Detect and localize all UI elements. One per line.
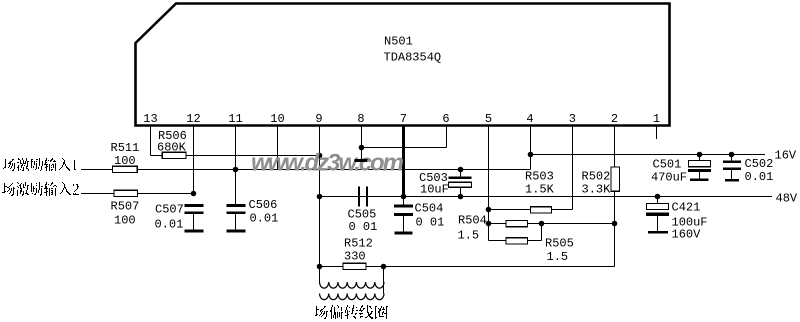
capacitor C502 (723, 155, 741, 181)
svg-text:13: 13 (143, 112, 157, 126)
node C502/16V (729, 152, 735, 158)
svg-text:470uF: 470uF (651, 171, 687, 185)
node R502 bottom (612, 221, 618, 227)
svg-text:R507: R507 (111, 200, 140, 214)
svg-text:C502: C502 (745, 157, 774, 171)
wire coil return bottom (320, 266, 615, 268)
wire node to R502 bottom (542, 223, 615, 225)
svg-text:680K: 680K (157, 141, 187, 155)
svg-text:10: 10 (270, 112, 284, 126)
svg-text:C504: C504 (415, 202, 444, 216)
node pin9/C505 (317, 194, 323, 200)
wire pin12 lead (193, 127, 195, 194)
node C503 top (458, 167, 464, 173)
svg-text:2: 2 (611, 112, 618, 126)
svg-text:11: 11 (228, 112, 242, 126)
svg-text:3: 3 (569, 112, 576, 126)
resistor R511 body (113, 166, 138, 172)
wire 16V rail (531, 154, 766, 156)
wire pin9 to C505 to pin7 (320, 196, 404, 198)
wire R503 row pin5 to pin3 (489, 209, 573, 211)
resistor R505 body (506, 238, 528, 244)
wire R502 bottom down to coil return (614, 191, 616, 266)
svg-text:1: 1 (653, 112, 660, 126)
wire pin9 lead down to coil (319, 127, 321, 267)
wire pin2 lead to R502 (614, 127, 616, 168)
node coil left (317, 264, 323, 270)
svg-text:10uF: 10uF (420, 183, 449, 197)
wire pin7 lead (402, 127, 405, 197)
svg-text:12: 12 (186, 112, 200, 126)
capacitor C506 (227, 170, 246, 232)
wire pin8 lead (361, 127, 363, 148)
svg-text:www.dz3w.com: www.dz3w.com (251, 150, 404, 177)
node coil right (381, 264, 387, 270)
svg-text:R512: R512 (344, 237, 373, 251)
wire pin6 lead (446, 127, 448, 148)
wire input2 to R507 (81, 193, 114, 195)
capacitor C504 (394, 197, 413, 234)
capacitor C503 polarized (449, 170, 472, 197)
svg-text:3.3K: 3.3K (582, 183, 612, 197)
node pin5/R503 (486, 207, 492, 213)
svg-text:0.01: 0.01 (250, 212, 279, 226)
svg-text:8: 8 (357, 112, 364, 126)
node R504/R505 right (539, 221, 545, 227)
inductor field deflection coil winding row2 (320, 294, 385, 300)
wire 48V rail (404, 196, 773, 198)
svg-text:100: 100 (114, 214, 136, 228)
svg-text:C501: C501 (653, 158, 682, 172)
node pin11/R511/C506 (233, 167, 239, 173)
svg-text:0.01: 0.01 (745, 170, 774, 184)
svg-text:C506: C506 (249, 198, 278, 212)
capacitor C501 polarized (688, 155, 711, 180)
IC N501 TDA8354Q body (136, 4, 670, 126)
svg-text:C421: C421 (672, 201, 701, 215)
wire pin1 stub (656, 127, 658, 140)
wire pin10 lead (277, 127, 279, 170)
capacitor C507 (185, 206, 204, 232)
node pin8 (359, 145, 365, 151)
svg-text:6: 6 (442, 112, 449, 126)
svg-text:330: 330 (344, 250, 366, 264)
resistor R506 body (162, 152, 186, 158)
svg-text:1.5: 1.5 (547, 250, 569, 264)
svg-text:0 01: 0 01 (349, 220, 378, 234)
node C501/16V (697, 152, 703, 158)
svg-text:0 01: 0 01 (416, 216, 445, 230)
node pin5/R504 (486, 221, 492, 227)
wire coil left terminal (319, 267, 321, 283)
wire pin4 lead (530, 127, 532, 170)
wire pin13 lead (150, 127, 152, 156)
svg-text:48V: 48V (776, 192, 798, 206)
svg-text:R502: R502 (582, 170, 611, 184)
resistor R503 body (530, 207, 551, 213)
resistor R502 body (611, 167, 620, 191)
node pin4/16V (528, 152, 534, 158)
svg-text:5: 5 (485, 112, 492, 126)
svg-text:R504: R504 (458, 214, 487, 228)
label input1 Chinese 场激励输入1 (3, 158, 76, 171)
resistor R504 body (506, 221, 528, 227)
wire R511 to pin11 and across to C503 and pin4 jog (137, 169, 530, 171)
node C421/48V (655, 194, 661, 200)
wire R504 row (489, 223, 542, 225)
wire pin3 lead (572, 127, 574, 210)
svg-text:4: 4 (526, 112, 533, 126)
svg-text:1.5: 1.5 (458, 229, 480, 243)
label input2 Chinese 场激励输入2 (2, 182, 79, 196)
svg-text:N501: N501 (384, 35, 413, 49)
node pin9/R506 (317, 153, 323, 159)
node pin12/R507/C507 (191, 191, 197, 197)
svg-text:16V: 16V (775, 149, 797, 163)
capacitor C505 (359, 187, 367, 207)
svg-text:100: 100 (114, 154, 136, 168)
capacitor C421 polarized (646, 197, 669, 233)
svg-text:C507: C507 (155, 203, 184, 217)
wire R507 to pin12 (138, 193, 194, 195)
wire pin8 ground stub (361, 148, 363, 160)
svg-text:9: 9 (315, 112, 322, 126)
wire pin8 to pin6 (362, 147, 447, 149)
wire pin5 lead down to R504/R505 bracket (488, 127, 490, 241)
svg-text:R503: R503 (525, 170, 554, 184)
resistor R507 body (114, 190, 138, 196)
inductor field deflection coil winding row1 (320, 282, 385, 288)
svg-text:1.5K: 1.5K (525, 183, 555, 197)
resistor R512 body (343, 263, 366, 269)
svg-text:7: 7 (400, 112, 407, 126)
wire R505 row (489, 240, 542, 242)
svg-text:R511: R511 (111, 141, 140, 155)
svg-text:TDA8354Q: TDA8354Q (384, 51, 442, 65)
node C503 bottom (458, 194, 464, 200)
label coil Chinese 场偏转线圈 (315, 305, 388, 319)
wire coil right terminal (383, 267, 385, 294)
svg-text:R505: R505 (545, 237, 574, 251)
svg-text:0.01: 0.01 (155, 218, 184, 232)
svg-text:160V: 160V (672, 228, 702, 242)
ground bar pin8 (355, 159, 368, 162)
node pin7/48V (401, 194, 407, 200)
wire pin13 to R506 to pin9 (151, 155, 320, 157)
wire R504/R505 right link (541, 224, 543, 241)
wire pin11 lead (235, 127, 237, 170)
wire input1 to R511 (81, 169, 113, 171)
